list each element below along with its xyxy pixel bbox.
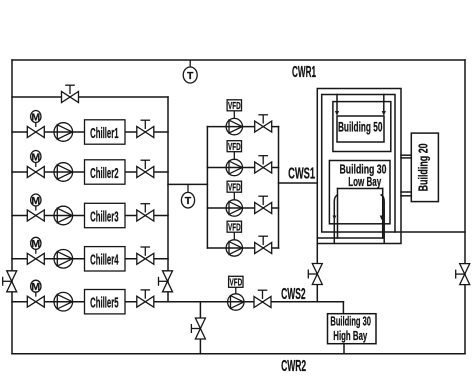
svg-text:Chiller4: Chiller4 bbox=[90, 253, 119, 269]
svg-text:Building 30: Building 30 bbox=[330, 314, 371, 329]
svg-text:CWR1: CWR1 bbox=[292, 64, 316, 81]
svg-text:Chiller3: Chiller3 bbox=[90, 209, 119, 225]
svg-text:CWS2: CWS2 bbox=[281, 286, 306, 303]
svg-text:Chiller1: Chiller1 bbox=[90, 126, 119, 142]
svg-text:T: T bbox=[185, 195, 192, 207]
svg-text:Low Bay: Low Bay bbox=[348, 174, 381, 189]
svg-text:Chiller2: Chiller2 bbox=[90, 166, 119, 182]
svg-text:Chiller5: Chiller5 bbox=[90, 296, 119, 312]
svg-text:T: T bbox=[187, 70, 194, 82]
svg-text:CWS1: CWS1 bbox=[288, 166, 315, 183]
svg-text:High Bay: High Bay bbox=[333, 328, 367, 343]
svg-text:Building 20: Building 20 bbox=[416, 143, 431, 191]
svg-text:CWR2: CWR2 bbox=[281, 358, 306, 375]
svg-text:Building 50: Building 50 bbox=[338, 119, 383, 135]
